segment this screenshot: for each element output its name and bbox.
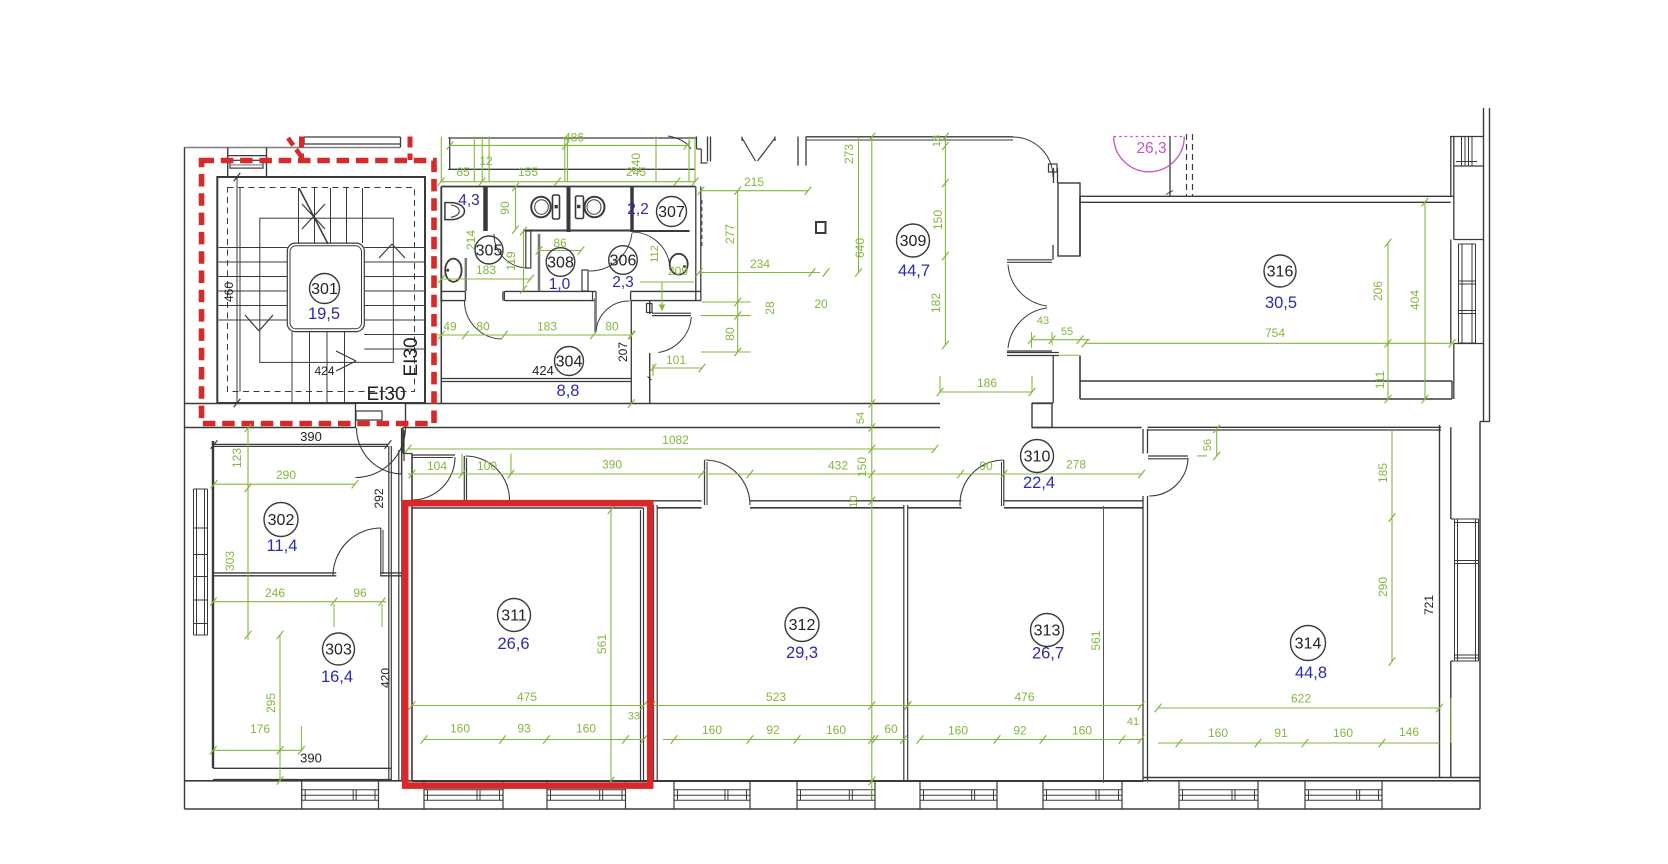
room 314 bottom wall bbox=[1143, 777, 1480, 779]
wire right outer wall step bbox=[1480, 421, 1490, 423]
svg-text:290: 290 bbox=[276, 468, 296, 482]
room 312/313 divider wall (double) bbox=[903, 505, 905, 781]
dim 49-80-183-80 line bbox=[436, 334, 632, 336]
door WC308 arc bbox=[494, 234, 528, 268]
node room 302 circle bbox=[264, 503, 298, 537]
svg-text:160: 160 bbox=[948, 724, 968, 738]
svg-text:314: 314 bbox=[1295, 636, 1322, 653]
wire stair middle rectangle bbox=[260, 218, 394, 362]
room 313/314 divider wall lower bbox=[1142, 496, 1144, 781]
dim bathroom 90 vertical bbox=[515, 187, 517, 230]
room 302/303 right wall (double) bbox=[388, 446, 390, 781]
svg-text:404: 404 bbox=[1408, 290, 1422, 310]
svg-text:80: 80 bbox=[476, 320, 490, 334]
svg-text:311: 311 bbox=[501, 608, 527, 625]
dim 1082 line bbox=[408, 448, 935, 450]
svg-text:390: 390 bbox=[602, 458, 622, 472]
svg-text:420: 420 bbox=[379, 668, 393, 688]
svg-text:12: 12 bbox=[479, 154, 493, 168]
svg-text:310: 310 bbox=[1024, 449, 1051, 466]
wire outer wall left bbox=[184, 147, 186, 809]
svg-text:96: 96 bbox=[353, 586, 367, 600]
room 303 bottom line bbox=[213, 767, 391, 769]
node column symbol room309 bbox=[816, 222, 826, 233]
door room311 entry arc bbox=[466, 456, 510, 500]
room 304 left wall bbox=[440, 302, 442, 404]
wire bottom inner wall line bbox=[185, 780, 1481, 782]
door room312 arc bbox=[706, 460, 751, 505]
door stair-top entry door bbox=[228, 155, 266, 157]
room 302 left wall bbox=[212, 441, 214, 768]
dim room312 window line bbox=[663, 739, 908, 741]
door room302 to room303 leaf bbox=[380, 528, 382, 576]
svg-text:104: 104 bbox=[427, 459, 447, 473]
svg-text:160: 160 bbox=[1208, 726, 1228, 740]
svg-text:1082: 1082 bbox=[662, 433, 689, 447]
door 309 northeast arc bbox=[1013, 137, 1053, 177]
wall WC308 left gray bbox=[538, 234, 541, 291]
wire hall shaft left wall bbox=[398, 450, 400, 781]
wall top-right vertical black bbox=[1169, 136, 1171, 196]
svg-text:18: 18 bbox=[931, 135, 943, 147]
svg-text:19,5: 19,5 bbox=[308, 305, 340, 323]
wire room309 top wall left jamb bbox=[707, 137, 709, 162]
dim 123-303 vertical bbox=[247, 426, 249, 640]
room 314 right wall (double) bbox=[1439, 425, 1441, 777]
svg-text:622: 622 bbox=[1291, 692, 1311, 706]
svg-text:183: 183 bbox=[537, 320, 557, 334]
window bottom W1 bbox=[302, 789, 379, 791]
door room302 top door leaf bbox=[401, 428, 403, 474]
svg-text:160: 160 bbox=[826, 723, 846, 737]
wire line above bathrooms bbox=[448, 137, 696, 139]
wall partition 306/307 (vertical) bbox=[630, 187, 634, 233]
svg-text:306: 306 bbox=[610, 253, 637, 270]
dim room314 window line bbox=[1158, 742, 1440, 744]
svg-text:432: 432 bbox=[828, 459, 848, 473]
door lower arc 309/310 bbox=[1008, 308, 1047, 348]
svg-text:303: 303 bbox=[223, 551, 237, 571]
dim 101 line bbox=[653, 367, 702, 369]
svg-text:10: 10 bbox=[848, 495, 860, 507]
wire bathroom protruding chunk bbox=[502, 291, 504, 300]
wire stair central rounded rect inner bbox=[290, 246, 362, 329]
svg-text:160: 160 bbox=[1333, 726, 1353, 740]
svg-text:22,4: 22,4 bbox=[1023, 474, 1055, 492]
dim 207 ticks bbox=[628, 331, 635, 339]
svg-text:29,3: 29,3 bbox=[786, 644, 818, 662]
node room 312 circle bbox=[785, 608, 819, 642]
wire bottom outer wall line bbox=[185, 808, 1481, 810]
wire rooms top wall line bbox=[658, 507, 702, 509]
svg-text:523: 523 bbox=[766, 690, 786, 704]
dim room314 185-290 vertical bbox=[1391, 430, 1393, 662]
svg-text:92: 92 bbox=[766, 723, 780, 737]
dim 273 vertical bbox=[858, 137, 860, 273]
svg-text:119: 119 bbox=[504, 251, 518, 270]
wire stair treads bottom flight bbox=[291, 332, 293, 402]
svg-text:183: 183 bbox=[476, 263, 496, 277]
door hall door arc bbox=[412, 457, 455, 500]
svg-text:278: 278 bbox=[1066, 458, 1086, 472]
room 302/303 divider wall bbox=[213, 572, 336, 574]
svg-text:305: 305 bbox=[476, 243, 503, 260]
window 316 right bbox=[1458, 244, 1460, 343]
node room 306 circle bbox=[609, 246, 638, 275]
svg-text:424: 424 bbox=[532, 363, 554, 378]
wire rooms bottom wall 312-313 bbox=[644, 780, 1144, 782]
door stair exit jambs bbox=[355, 404, 357, 428]
dim 234 line bbox=[699, 272, 820, 274]
wall stubs at 316 window bbox=[1454, 239, 1484, 241]
door 305 swing arc bbox=[464, 301, 502, 339]
wall pier 316 corner bbox=[1058, 183, 1080, 256]
wall stub below double door bbox=[1007, 352, 1059, 354]
window bottom W9 bbox=[1305, 789, 1382, 791]
svg-text:80: 80 bbox=[723, 327, 737, 341]
door 309-nook leaf bbox=[652, 312, 691, 314]
svg-text:640: 640 bbox=[853, 238, 867, 258]
svg-text:146: 146 bbox=[1399, 725, 1419, 739]
node magenta area circle 26,3 bbox=[1114, 137, 1185, 172]
svg-text:101: 101 bbox=[666, 353, 686, 367]
dim 404 vertical bbox=[1424, 202, 1426, 399]
wall 309/316 vertical (double) bbox=[1053, 168, 1055, 183]
dim 246-96 line bbox=[213, 601, 386, 603]
wire corridor wall band top line bbox=[185, 403, 356, 405]
node room 311 red highlight box bbox=[405, 503, 650, 785]
svg-text:16,4: 16,4 bbox=[321, 668, 353, 686]
svg-text:2,3: 2,3 bbox=[612, 274, 634, 291]
door WC308 jamb bbox=[526, 231, 531, 268]
svg-text:160: 160 bbox=[450, 722, 470, 736]
dim room313 window line bbox=[920, 739, 1141, 741]
dim 754 line bbox=[1085, 342, 1452, 344]
window bottom W3 bbox=[547, 789, 626, 791]
node room 305 circle bbox=[475, 236, 503, 264]
dim 186 line bbox=[940, 391, 1032, 393]
svg-text:301: 301 bbox=[311, 281, 338, 298]
svg-text:EI30: EI30 bbox=[401, 337, 422, 376]
svg-text:EI30: EI30 bbox=[366, 384, 405, 405]
room 312 left wall (double) bbox=[653, 505, 655, 781]
door hall door leaf bbox=[412, 454, 455, 456]
svg-text:302: 302 bbox=[268, 512, 295, 529]
svg-text:295: 295 bbox=[264, 693, 278, 713]
door upper arc 309/310 bbox=[1008, 265, 1047, 307]
window bottom W7 bbox=[1043, 789, 1122, 791]
dim 486 top bbox=[450, 144, 687, 146]
wire stair cross mark bbox=[302, 204, 325, 229]
door room302 top swing arc bbox=[357, 428, 403, 474]
room 303 bottom wall bbox=[213, 779, 391, 781]
wire bathroom upper ledge line bbox=[448, 168, 695, 170]
room 316 right wall (double) bbox=[1450, 137, 1452, 197]
svg-text:182: 182 bbox=[929, 293, 943, 313]
svg-text:20: 20 bbox=[814, 297, 828, 311]
svg-text:92: 92 bbox=[1013, 724, 1027, 738]
svg-text:11,4: 11,4 bbox=[267, 537, 298, 555]
room 316 bottom slab bbox=[1080, 380, 1452, 382]
svg-text:30,5: 30,5 bbox=[1265, 294, 1297, 312]
svg-text:26,6: 26,6 bbox=[497, 635, 529, 653]
wire red dashed diagonal bbox=[288, 138, 303, 159]
svg-text:390: 390 bbox=[300, 429, 322, 444]
door 309 double entry leaves (V) bbox=[742, 138, 756, 161]
svg-text:56: 56 bbox=[1202, 439, 1214, 451]
dim 295 vertical bbox=[279, 635, 281, 781]
window bottom W8 bbox=[1179, 789, 1258, 791]
room 305-307 bathroom outer walls bbox=[441, 186, 695, 188]
dim 56 vertical bbox=[1216, 429, 1218, 456]
svg-text:292: 292 bbox=[372, 488, 386, 508]
svg-text:303: 303 bbox=[325, 642, 352, 659]
door middle room exit leaf gray bbox=[594, 298, 597, 332]
door lower leaf 309/310 bbox=[1007, 350, 1052, 352]
room 311 right wall (double) bbox=[640, 510, 642, 781]
svg-text:240: 240 bbox=[629, 153, 643, 173]
svg-text:307: 307 bbox=[658, 204, 685, 221]
node room 314 circle bbox=[1291, 626, 1326, 661]
wire stair dashed inner rectangle bbox=[228, 188, 415, 392]
wire red dashed notch left bbox=[299, 137, 304, 161]
room 304 right wall bbox=[630, 301, 632, 404]
fixture sink D-shape room305 bbox=[445, 203, 451, 220]
node room 311 circle bbox=[498, 599, 531, 632]
svg-text:26,3: 26,3 bbox=[1136, 140, 1166, 157]
node room 310 circle bbox=[1021, 440, 1054, 473]
dim corridor line 104-100-390-432-90-278 bbox=[408, 473, 1142, 475]
svg-text:316: 316 bbox=[1267, 264, 1294, 281]
svg-text:308: 308 bbox=[547, 255, 574, 272]
door room302 to room303 arc bbox=[333, 528, 381, 576]
node room 304 circle bbox=[555, 347, 584, 376]
window bottom W5 bbox=[797, 789, 875, 791]
svg-text:150: 150 bbox=[855, 457, 869, 477]
node room 313 circle bbox=[1031, 614, 1064, 647]
wire outer wall top-left ledge bbox=[185, 147, 401, 149]
wire black dashed extension x702 bbox=[701, 200, 703, 248]
node EI30 fire compartment dashed red box bbox=[202, 161, 435, 424]
svg-text:273: 273 bbox=[842, 144, 856, 164]
room 302 top wall bbox=[214, 444, 388, 446]
dim bathroom 119 vertical bbox=[523, 229, 525, 291]
svg-text:2,2: 2,2 bbox=[627, 201, 649, 218]
svg-text:44,7: 44,7 bbox=[898, 262, 930, 280]
svg-text:43: 43 bbox=[1037, 315, 1049, 327]
svg-text:390: 390 bbox=[300, 751, 322, 766]
svg-text:476: 476 bbox=[1014, 690, 1034, 704]
svg-text:460: 460 bbox=[222, 282, 236, 302]
dim 85-155-245 line bbox=[441, 181, 695, 183]
svg-text:215: 215 bbox=[744, 175, 764, 189]
door room311 entry leaf bbox=[463, 456, 465, 500]
fixture sink oval room305 bbox=[445, 259, 461, 282]
wire upper-floor door arc NE of bathroom bbox=[668, 136, 691, 149]
svg-text:49: 49 bbox=[443, 320, 457, 334]
svg-text:28: 28 bbox=[763, 301, 777, 315]
svg-text:85: 85 bbox=[456, 165, 470, 179]
svg-text:111: 111 bbox=[1373, 371, 1387, 390]
dim green stub y355 bbox=[1059, 354, 1080, 356]
svg-text:313: 313 bbox=[1034, 623, 1061, 640]
wire room309 top wall right jamb bbox=[797, 137, 799, 166]
window left outer wall bbox=[193, 489, 195, 635]
svg-text:312: 312 bbox=[789, 617, 816, 634]
dim 209 label bbox=[640, 281, 694, 283]
dim room312 523 line bbox=[652, 705, 908, 707]
dim 43-55 line bbox=[1032, 339, 1091, 341]
wall WC stall top bbox=[524, 230, 632, 232]
wire stepped wall left of 309 entrance bbox=[696, 137, 698, 150]
fixture toilet 2 bbox=[585, 197, 605, 218]
svg-text:123: 123 bbox=[230, 448, 244, 468]
wire hall shaft corner bbox=[402, 428, 404, 454]
svg-text:55: 55 bbox=[1061, 326, 1073, 338]
door 306 arc bbox=[589, 233, 632, 271]
wire bathroom bottom wall upper line bbox=[441, 290, 465, 292]
svg-text:185: 185 bbox=[1376, 463, 1390, 483]
svg-text:91: 91 bbox=[1274, 726, 1288, 740]
room 304 platform edge (double) bbox=[441, 378, 631, 380]
window bottom W4 bbox=[674, 789, 750, 791]
dim extension verticals top bbox=[440, 137, 442, 183]
door room314 arc bbox=[1149, 458, 1188, 496]
dim 18-150-182 vertical bbox=[944, 137, 946, 345]
fixture toilet 1 bbox=[531, 197, 551, 218]
svg-text:90: 90 bbox=[498, 201, 512, 215]
wire stair treads top flight bbox=[298, 188, 300, 243]
door upper leaf 309/310 bbox=[1007, 259, 1052, 261]
room 311 bottom wall bbox=[412, 780, 644, 782]
wall partition 307 horizontal bbox=[632, 230, 690, 232]
wire stair chevron bottom bbox=[336, 351, 356, 361]
room 311 top wall bbox=[412, 507, 644, 509]
wire right outer wall upper (double) bbox=[1483, 108, 1485, 422]
wall stub left of pier bbox=[1052, 245, 1054, 260]
svg-text:176: 176 bbox=[250, 722, 270, 736]
svg-text:561: 561 bbox=[595, 634, 609, 654]
svg-text:155: 155 bbox=[518, 165, 538, 179]
window bottom W2 bbox=[424, 789, 503, 791]
dim 277 vertical bbox=[737, 191, 739, 352]
wire red dashed notch right bbox=[408, 137, 413, 161]
wire stair chevron right bbox=[379, 244, 392, 258]
wire stair dim 460 line bbox=[236, 177, 238, 403]
wire corridor wall band bottom line bbox=[185, 427, 357, 429]
wire bathroom bottom wall jambs bbox=[464, 291, 466, 300]
svg-text:186: 186 bbox=[977, 376, 997, 390]
fixture sink room307 bbox=[670, 254, 688, 275]
svg-text:160: 160 bbox=[576, 722, 596, 736]
wire stair well left edge bbox=[239, 188, 241, 392]
svg-text:424: 424 bbox=[314, 364, 334, 378]
svg-text:44,8: 44,8 bbox=[1295, 664, 1327, 682]
wall 309-nook vertical bbox=[649, 301, 651, 314]
window bottom W6 bbox=[920, 789, 997, 791]
wall dashed verticals bbox=[1186, 134, 1188, 196]
svg-text:160: 160 bbox=[1072, 724, 1092, 738]
node room 301 circle bbox=[310, 274, 340, 304]
svg-text:150: 150 bbox=[931, 210, 945, 230]
dim room314 622 line bbox=[1158, 707, 1440, 709]
wire stair direction diagonal bbox=[299, 188, 328, 244]
svg-text:26,7: 26,7 bbox=[1032, 645, 1064, 663]
wire canopy above stair (double line) bbox=[304, 136, 401, 138]
dim 176 line bbox=[213, 749, 301, 751]
window room314 right bbox=[1451, 518, 1454, 520]
wire stair-top door jambs bbox=[227, 148, 229, 178]
svg-text:207: 207 bbox=[616, 342, 630, 362]
wall vertical x1053 to pier bbox=[1052, 356, 1054, 403]
door room312 leaf bbox=[704, 460, 706, 505]
door 309-nook arc bbox=[658, 317, 691, 353]
wire corridor band right segment bbox=[1032, 427, 1142, 429]
dim 290 line bbox=[214, 483, 355, 485]
svg-text:277: 277 bbox=[723, 224, 737, 244]
svg-text:234: 234 bbox=[750, 257, 770, 271]
dim room311 561 vertical bbox=[610, 510, 612, 781]
svg-text:160: 160 bbox=[702, 723, 722, 737]
door 305 leaf gray bbox=[465, 258, 467, 291]
node room 307 circle bbox=[657, 197, 687, 227]
room 311 left wall bbox=[411, 454, 413, 782]
room 313/314 divider wall upper bbox=[1142, 429, 1144, 454]
dim 215 line bbox=[701, 190, 808, 192]
wire corridor band pier bbox=[1032, 404, 1052, 428]
wire stair treads left flight bbox=[219, 247, 288, 249]
node room 309 circle bbox=[897, 224, 930, 257]
room 316 left wall bbox=[1079, 196, 1081, 256]
door stair exit sill rect bbox=[356, 411, 382, 420]
wire stair treads right flight bbox=[364, 247, 424, 249]
node room 316 circle bbox=[1264, 255, 1296, 287]
wire corridor south wall line bbox=[403, 500, 467, 502]
dim room313 476 line bbox=[908, 705, 1141, 707]
svg-text:100: 100 bbox=[477, 459, 497, 473]
dim 86 line bbox=[539, 250, 581, 252]
window top right bbox=[1450, 136, 1484, 138]
door 307 arc bbox=[632, 232, 670, 270]
svg-text:90: 90 bbox=[979, 459, 993, 473]
door room313 arc bbox=[960, 460, 1004, 506]
wire stair chevron left bbox=[245, 315, 259, 331]
svg-text:721: 721 bbox=[1422, 595, 1436, 615]
room 314 top wall bbox=[1148, 426, 1442, 428]
dim bathroom 183 line bbox=[442, 278, 531, 280]
svg-text:8,8: 8,8 bbox=[557, 382, 580, 400]
wall partition 305 / WC (vertical) bbox=[483, 187, 488, 232]
door middle room exit arc bbox=[596, 301, 630, 332]
dim 28 and 80 left stack bbox=[702, 301, 751, 303]
door room313 leaf bbox=[1003, 460, 1005, 506]
wall partition between toilets bbox=[567, 187, 571, 233]
svg-text:54: 54 bbox=[855, 412, 867, 424]
wire bathroom bottom wall lower line bbox=[441, 300, 465, 302]
svg-text:246: 246 bbox=[265, 586, 285, 600]
wire stair central rounded rect outer bbox=[287, 243, 364, 332]
dim 640 long vertical bbox=[871, 137, 873, 800]
svg-text:80: 80 bbox=[605, 320, 619, 334]
dim 206-111 vertical bbox=[1387, 243, 1389, 399]
svg-text:309: 309 bbox=[900, 233, 927, 250]
svg-text:561: 561 bbox=[1089, 630, 1103, 650]
svg-text:33: 33 bbox=[628, 711, 640, 723]
svg-text:290: 290 bbox=[1376, 577, 1390, 597]
door room314 leaf bbox=[1148, 455, 1188, 457]
wire room 313 interior dim line dark bbox=[1103, 506, 1105, 783]
wall WC308 right post bbox=[582, 270, 588, 291]
